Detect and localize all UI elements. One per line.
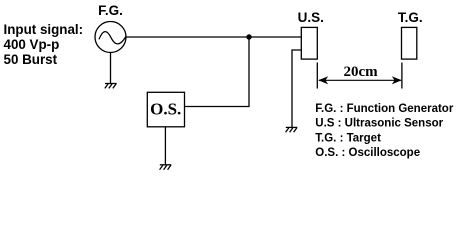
svg-text:O.S.: O.S. xyxy=(150,100,181,119)
dimension: arrow 20cm xyxy=(318,76,402,84)
node: junction dot xyxy=(246,34,251,39)
svg-text:400 Vp-p: 400 Vp-p xyxy=(4,37,60,52)
wire: F.G. output to U.S. xyxy=(126,36,301,38)
svg-text:O.S. : Oscilloscope: O.S. : Oscilloscope xyxy=(315,147,420,159)
svg-text:Input signal:: Input signal: xyxy=(4,22,84,37)
svg-text:F.G.: F.G. xyxy=(98,3,123,18)
wire: U.S. lower terminal to ground xyxy=(292,50,301,127)
target T.G. box xyxy=(402,27,417,59)
legend text xyxy=(315,103,454,159)
oscilloscope O.S. box xyxy=(147,92,184,127)
svg-text:T.G.: T.G. xyxy=(398,10,423,25)
label: input signal annotation xyxy=(4,22,84,67)
svg-text:U.S : Ultrasonic Sensor: U.S : Ultrasonic Sensor xyxy=(315,118,443,130)
dimension: extension line at T.G. xyxy=(401,63,403,89)
wire: junction down to oscilloscope xyxy=(185,37,250,107)
ground: under F.G. xyxy=(105,84,117,89)
wire: F.G. to ground xyxy=(110,53,112,84)
svg-text:20cm: 20cm xyxy=(344,64,379,80)
wire: O.S. to ground xyxy=(164,127,166,165)
dimension: extension line at U.S. xyxy=(316,63,318,89)
ground: under U.S. terminal xyxy=(286,127,298,132)
ultrasonic sensor U.S. box xyxy=(301,27,317,59)
svg-text:T.G. : Target: T.G. : Target xyxy=(315,132,381,144)
function generator F.G. (sine source) xyxy=(95,22,126,53)
svg-text:U.S.: U.S. xyxy=(298,10,324,25)
svg-text:50 Burst: 50 Burst xyxy=(4,52,58,67)
ground: under O.S. xyxy=(160,165,172,170)
svg-text:F.G. : Function Generator: F.G. : Function Generator xyxy=(315,103,454,115)
